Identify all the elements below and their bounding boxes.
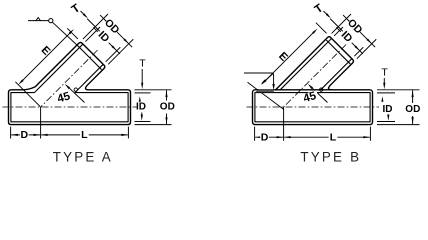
branch wall extension lines (83, 14, 108, 39)
extension lines below run (10, 127, 12, 139)
branch outline (275, 37, 353, 90)
mouth face extension line (67, 28, 78, 39)
dimension ID (branch) (93, 27, 120, 54)
fillet weld bead (255, 89, 274, 92)
weld symbol mark (36, 18, 41, 21)
dimension E (branch length) (21, 32, 72, 83)
branch end-cap lip line (327, 40, 350, 63)
svg-text:ID: ID (383, 104, 393, 115)
dimension E (branch length) (264, 31, 315, 82)
TYPE B lateral fitting drawing (244, 2, 420, 164)
svg-text:T: T (139, 58, 146, 70)
extension line through junction (15, 82, 40, 107)
run pipe and branch outline (9, 42, 131, 124)
dimension L (41, 134, 128, 136)
branch wall extension lines (332, 14, 351, 33)
dimension L (284, 136, 370, 138)
dimension T (branch wall) (87, 19, 100, 32)
svg-text:OD: OD (160, 102, 175, 113)
branch centerline (41, 50, 98, 107)
branch wall inner lip lines (280, 38, 332, 90)
extension lines right of run (377, 89, 420, 91)
extension line branch center vertical (40, 107, 42, 139)
svg-text:OD: OD (405, 104, 420, 115)
weld symbol reference line (28, 20, 49, 22)
dimension T (branch wall) (330, 19, 343, 32)
svg-text:D: D (20, 129, 28, 141)
mouth face extension line (316, 23, 327, 34)
svg-text:ID: ID (136, 102, 146, 113)
angle 45 deg label (66, 85, 84, 102)
svg-text:D: D (261, 131, 269, 143)
run centerline (247, 106, 380, 108)
svg-text:T: T (381, 67, 388, 79)
run pipe wall lip lines (255, 92, 371, 94)
weld-all-around circle (49, 19, 53, 23)
run pipe outline (253, 90, 373, 125)
svg-text:TYPE A: TYPE A (53, 149, 113, 164)
weld leader arrow to bead (262, 73, 273, 83)
run centerline (3, 106, 138, 108)
weld symbol leader line (52, 22, 78, 46)
svg-text:TYPE B: TYPE B (300, 149, 361, 164)
weld symbol leader (244, 73, 274, 85)
dimension OD (branch) (343, 15, 375, 47)
angle 45 deg label (309, 85, 327, 102)
extension lines below run (254, 127, 256, 141)
svg-text:L: L (330, 131, 337, 143)
TYPE A lateral fitting drawing (3, 2, 175, 164)
dimension OD (branch) (100, 15, 132, 47)
dimension D (255, 136, 283, 138)
extension lines right of run (135, 89, 172, 91)
extension line branch center vertical (283, 107, 285, 141)
dimension OD (run) (412, 90, 414, 103)
dimension D (11, 134, 40, 136)
branch end-cap lip line (78, 46, 101, 69)
branch centerline (284, 45, 347, 108)
branch wall inner lip lines (34, 44, 83, 93)
svg-text:L: L (81, 129, 88, 141)
extension line through junction (248, 82, 285, 109)
run pipe wall lip lines (11, 92, 35, 94)
dimension OD (run) (166, 90, 168, 100)
dimension ID (branch) (336, 27, 363, 54)
